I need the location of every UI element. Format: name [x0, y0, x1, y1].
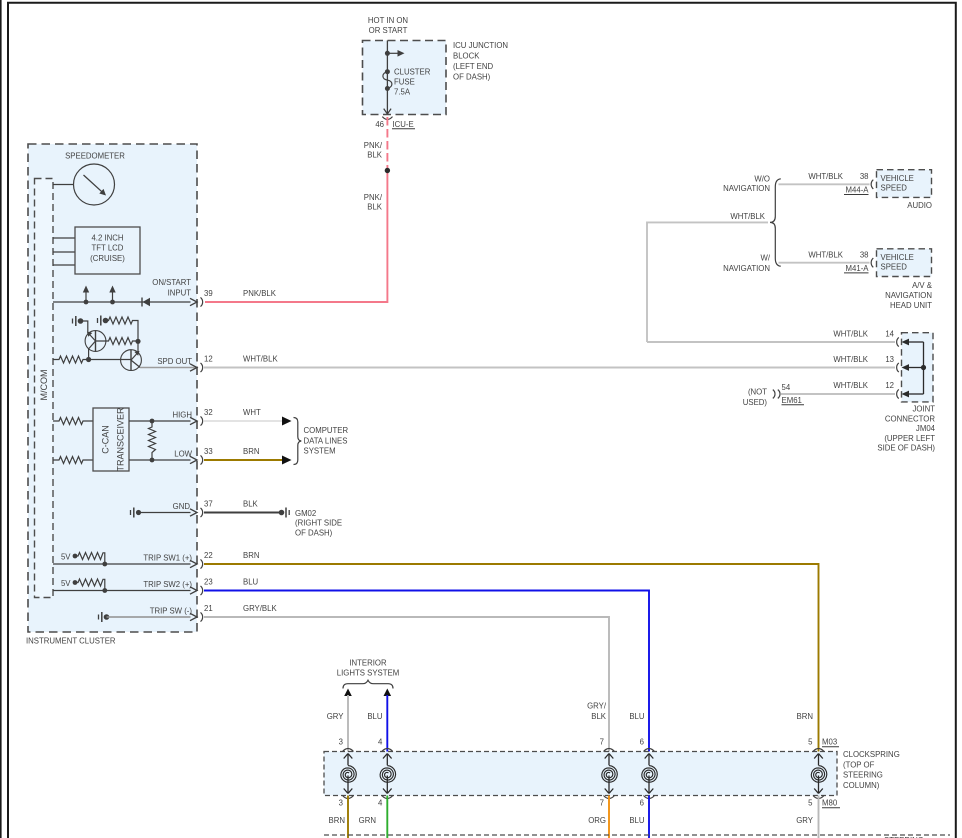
svg-text:VEHICLE: VEHICLE — [881, 253, 914, 262]
jm04 internal arrow 13 — [902, 364, 910, 371]
wire ICU feed vertical — [386, 41, 388, 114]
svg-text:USED): USED) — [743, 398, 768, 407]
vehicle speed box (audio) — [877, 170, 932, 198]
svg-text:BLU: BLU — [243, 578, 259, 587]
arrow up interior lights (GRY) — [344, 689, 352, 697]
resistor R1 (top) — [106, 317, 139, 341]
svg-text:37: 37 — [204, 500, 213, 509]
svg-text:COLUMN): COLUMN) — [843, 781, 880, 790]
svg-text:OF DASH): OF DASH) — [295, 529, 333, 538]
svg-text:LIGHTS SYSTEM: LIGHTS SYSTEM — [337, 668, 399, 677]
svg-text:21: 21 — [204, 604, 213, 613]
svg-text:GRY/BLK: GRY/BLK — [243, 604, 277, 613]
svg-text:NAVIGATION: NAVIGATION — [723, 184, 770, 193]
wire WHT/BLK spd out long — [204, 367, 895, 369]
svg-text:(RIGHT SIDE: (RIGHT SIDE — [295, 519, 342, 528]
pin 37 — [190, 509, 197, 516]
ground symbol (trip sw -) — [98, 615, 100, 620]
joint connector JM04 box — [902, 333, 934, 402]
svg-text:38: 38 — [860, 251, 869, 260]
svg-text:33: 33 — [204, 447, 213, 456]
svg-text:13: 13 — [885, 355, 894, 364]
svg-text:(TOP OF: (TOP OF — [843, 760, 875, 769]
svg-text:32: 32 — [204, 408, 213, 417]
svg-text:JOINT: JOINT — [912, 405, 935, 414]
wire trip sw1 row — [53, 563, 191, 565]
ground GM02 — [279, 510, 285, 516]
pin 14 connector — [897, 337, 899, 346]
wire WHT/BLK to audio VSS — [779, 183, 870, 185]
svg-text:INTERIOR: INTERIOR — [349, 658, 387, 667]
jm04 bus — [923, 342, 925, 394]
svg-text:ON/START: ON/START — [152, 278, 191, 287]
node jm04 junction — [921, 365, 926, 370]
svg-text:HIGH: HIGH — [173, 411, 193, 420]
svg-text:ICU JUNCTION: ICU JUNCTION — [453, 41, 508, 50]
node trip sw1 — [102, 562, 107, 567]
wire GRN below pin4 — [386, 796, 388, 838]
wire P1 to Q1 — [81, 321, 88, 334]
node branch dot — [385, 51, 390, 56]
wire BLU below pin6 — [648, 796, 650, 838]
svg-text:WHT/BLK: WHT/BLK — [730, 212, 765, 221]
arrow up interior lights (BLU) — [384, 689, 392, 697]
svg-text:54: 54 — [782, 383, 791, 392]
svg-text:ORG: ORG — [588, 816, 606, 825]
wire into pin 12 — [781, 393, 895, 395]
svg-text:12: 12 — [885, 381, 894, 390]
svg-text:BLOCK: BLOCK — [453, 52, 480, 61]
jm04 internal arrow 12 — [902, 391, 910, 398]
clockspring coil pin3 — [341, 749, 357, 799]
svg-text:LOW: LOW — [174, 450, 192, 459]
svg-text:A/V &: A/V & — [912, 281, 933, 290]
svg-text:SPEED: SPEED — [881, 183, 908, 192]
LCD display box — [75, 227, 140, 274]
svg-text:FUSE: FUSE — [394, 78, 415, 87]
svg-text:GRY: GRY — [327, 712, 345, 721]
wire high row — [129, 420, 191, 422]
svg-text:22: 22 — [204, 551, 213, 560]
wire PNK/BLK solid down and left to pin 39 — [205, 171, 387, 303]
wire GRY below pin5 — [818, 796, 820, 838]
svg-text:PNK/: PNK/ — [364, 193, 383, 202]
svg-text:M80: M80 — [822, 799, 838, 808]
svg-text:GRY/: GRY/ — [587, 702, 607, 711]
pin 32 — [190, 417, 197, 424]
svg-text:HOT IN ON: HOT IN ON — [368, 16, 408, 25]
svg-text:BRN: BRN — [243, 447, 259, 456]
clockspring box — [324, 752, 837, 796]
wire low row — [129, 459, 191, 461]
svg-text:4: 4 — [378, 799, 383, 808]
svg-text:SPD OUT: SPD OUT — [157, 357, 192, 366]
pin 23 — [190, 587, 197, 594]
svg-text:ICU-E: ICU-E — [393, 120, 414, 129]
wire GND row — [139, 512, 191, 514]
svg-text:6: 6 — [640, 799, 644, 808]
svg-text:(NOT: (NOT — [748, 388, 767, 397]
INSTRUMENT CLUSTER outer dashed box — [28, 144, 197, 632]
pullup resistor trip sw1 — [73, 554, 78, 559]
svg-text:INPUT: INPUT — [168, 289, 192, 298]
svg-text:OR START: OR START — [369, 26, 408, 35]
brace interior lights — [343, 680, 393, 688]
svg-text:BLU: BLU — [367, 712, 383, 721]
wire BRN low — [204, 459, 284, 461]
svg-text:23: 23 — [204, 578, 213, 587]
svg-text:WHT/BLK: WHT/BLK — [243, 355, 278, 364]
svg-text:TRIP SW1 (+): TRIP SW1 (+) — [143, 554, 192, 563]
svg-text:VEHICLE: VEHICLE — [881, 174, 914, 183]
stub wires to LCD — [53, 237, 75, 239]
wire to speedometer — [53, 184, 74, 186]
power symbol P1 — [72, 319, 74, 324]
svg-text:WHT: WHT — [243, 408, 261, 417]
speedometer gauge — [74, 164, 115, 205]
svg-text:NAVIGATION: NAVIGATION — [723, 264, 770, 273]
svg-text:38: 38 — [860, 172, 869, 181]
svg-text:M41-A: M41-A — [846, 264, 870, 273]
wire to Q2 base — [89, 359, 131, 361]
svg-text:CONNECTOR: CONNECTOR — [885, 414, 935, 423]
wire trip sw2 row — [53, 590, 191, 592]
wire WHT/BLK branch up from pin14 to split — [647, 222, 768, 342]
pin 39 — [190, 298, 197, 305]
transistor Q1 — [85, 331, 106, 352]
transistor Q2 — [121, 350, 142, 371]
wire GRY down to clockspring pin 3 — [347, 695, 349, 752]
svg-text:TRANSCEIVER: TRANSCEIVER — [116, 407, 126, 472]
wire junction down to Q2 emitter — [137, 341, 139, 353]
pin 12 connector — [897, 389, 899, 398]
ICU junction block (dashed box) — [363, 41, 447, 115]
svg-text:EM61: EM61 — [782, 396, 802, 405]
wire GRY/BLK trip sw minus to clockspring — [204, 617, 609, 752]
svg-text:PNK/: PNK/ — [364, 141, 383, 150]
wire BLK to GM02 — [204, 512, 282, 514]
node R1/R2 junction — [135, 339, 140, 344]
resistor R4 (CAN high) — [53, 418, 93, 425]
svg-text:GND: GND — [173, 502, 191, 511]
svg-text:BRN: BRN — [243, 551, 259, 560]
power symbol P2 — [97, 318, 99, 323]
wire BRN trip sw1 to clockspring — [204, 564, 819, 752]
svg-text:INSTRUMENT CLUSTER: INSTRUMENT CLUSTER — [26, 637, 116, 646]
svg-text:BLK: BLK — [367, 203, 383, 212]
svg-text:NAVIGATION: NAVIGATION — [885, 291, 932, 300]
svg-text:M44-A: M44-A — [846, 186, 870, 195]
svg-text:TRIP SW2 (+): TRIP SW2 (+) — [143, 580, 192, 589]
clockspring coil pin4 — [380, 749, 396, 799]
svg-text:SYSTEM: SYSTEM — [304, 447, 336, 456]
svg-text:5: 5 — [808, 738, 813, 747]
svg-text:46: 46 — [375, 120, 384, 129]
svg-text:3: 3 — [339, 738, 343, 747]
svg-text:BLK: BLK — [367, 151, 383, 160]
pin 33 — [190, 456, 197, 463]
pin 46 connector arc — [382, 117, 392, 120]
clockspring coil pin6 — [642, 749, 658, 799]
svg-text:BLU: BLU — [629, 816, 645, 825]
branch arrow up 2 — [110, 300, 115, 305]
svg-text:WHT/BLK: WHT/BLK — [808, 172, 843, 181]
svg-text:39: 39 — [204, 289, 213, 298]
resistor R3 (emitter bottom row) — [53, 356, 89, 363]
svg-text:SPEEDOMETER: SPEEDOMETER — [65, 152, 125, 161]
diode D1 — [141, 298, 143, 307]
svg-text:(CRUISE): (CRUISE) — [90, 254, 125, 263]
wire branch right with arrow — [387, 52, 399, 54]
svg-text:C-CAN: C-CAN — [101, 425, 111, 454]
svg-text:12: 12 — [204, 355, 213, 364]
svg-text:W/O: W/O — [754, 174, 770, 183]
svg-text:7: 7 — [600, 738, 604, 747]
svg-text:5V: 5V — [61, 579, 71, 588]
svg-text:CLUSTER: CLUSTER — [394, 68, 431, 77]
clockspring coil pin7 — [602, 749, 618, 799]
svg-text:WHT/BLK: WHT/BLK — [833, 355, 868, 364]
cluster fuse 7.5A — [385, 69, 390, 74]
resistor R6 (termination vertical) — [149, 421, 156, 460]
svg-text:GM02: GM02 — [295, 509, 316, 518]
svg-text:STEERING: STEERING — [843, 771, 883, 780]
connector EM61 arcs — [773, 390, 780, 399]
wire ON/START input row — [53, 301, 191, 303]
wire BRN below pin3 — [347, 796, 349, 838]
svg-text:M/COM: M/COM — [39, 370, 49, 401]
svg-text:OF DASH): OF DASH) — [453, 73, 491, 82]
C-CAN transceiver U1 — [93, 408, 129, 471]
vehicle speed box (nav) — [877, 249, 932, 277]
svg-text:WHT/BLK: WHT/BLK — [833, 330, 868, 339]
svg-text:7.5A: 7.5A — [394, 88, 411, 97]
pin 21 — [190, 613, 197, 620]
wire PNK/BLK dashed (fusible) — [386, 117, 388, 171]
page edge line — [0, 0, 2, 838]
wire WHT/BLK to nav VSS — [779, 262, 870, 264]
svg-text:WHT/BLK: WHT/BLK — [833, 381, 868, 390]
jm04 internal arrow 14 — [902, 339, 910, 346]
svg-text:SIDE OF DASH): SIDE OF DASH) — [877, 444, 935, 453]
svg-text:7: 7 — [600, 799, 604, 808]
svg-text:BRN: BRN — [329, 816, 345, 825]
svg-text:5: 5 — [808, 799, 813, 808]
svg-text:SPEED: SPEED — [881, 263, 908, 272]
branch arrow up 1 — [84, 300, 89, 305]
wire into pin 14 — [647, 341, 895, 343]
svg-text:4.2 INCH: 4.2 INCH — [91, 233, 123, 242]
wire trip sw minus row — [107, 616, 191, 618]
svg-text:M03: M03 — [822, 738, 837, 747]
pin 22 — [190, 560, 197, 567]
arrow to data lines (low) — [282, 456, 292, 465]
node high junction — [150, 419, 155, 424]
svg-text:5V: 5V — [61, 553, 71, 562]
brace navigation split — [770, 179, 781, 266]
svg-text:6: 6 — [640, 738, 644, 747]
svg-text:BLK: BLK — [243, 500, 259, 509]
node Q1/Q2 base junction — [86, 357, 91, 362]
svg-text:BRN: BRN — [797, 712, 813, 721]
ground symbol (cluster GND) — [130, 510, 132, 515]
arrow to data lines (high) — [282, 417, 292, 426]
arrow down at box bottom — [384, 109, 391, 114]
pin 13 connector — [897, 363, 899, 372]
brace computer data lines — [294, 418, 302, 465]
svg-text:W/: W/ — [760, 254, 770, 263]
resistor R5 (CAN low) — [53, 457, 93, 464]
steering wheel box top edge (cut off) — [324, 834, 950, 836]
svg-text:JM04: JM04 — [916, 424, 936, 433]
svg-text:PNK/BLK: PNK/BLK — [243, 289, 277, 298]
svg-text:HEAD UNIT: HEAD UNIT — [890, 301, 932, 310]
resistor R2 (base of Q1) — [96, 338, 139, 345]
svg-text:GRN: GRN — [359, 816, 376, 825]
svg-text:(LEFT END: (LEFT END — [453, 62, 494, 71]
pullup resistor trip sw2 — [73, 580, 78, 585]
wire BLU trip sw2 to clockspring — [204, 591, 649, 752]
svg-text:GRY: GRY — [796, 816, 814, 825]
svg-text:TFT LCD: TFT LCD — [92, 244, 124, 253]
svg-text:AUDIO: AUDIO — [907, 201, 932, 210]
wire ORG below pin7 — [608, 796, 610, 838]
wire WHT — [204, 420, 284, 422]
clockspring coil pin5 — [811, 749, 827, 799]
svg-text:BLK: BLK — [591, 712, 607, 721]
M/COM inner dashed box — [35, 179, 54, 598]
pin 12 — [190, 364, 197, 371]
svg-text:TRIP SW (-): TRIP SW (-) — [150, 607, 193, 616]
svg-text:3: 3 — [339, 799, 343, 808]
node trip sw2 — [102, 588, 107, 593]
svg-text:BLU: BLU — [629, 712, 645, 721]
svg-text:14: 14 — [885, 330, 894, 339]
node low junction — [150, 458, 155, 463]
splice node on PNK wire — [385, 168, 390, 173]
svg-text:COMPUTER: COMPUTER — [304, 426, 349, 435]
svg-text:(UPPER LEFT: (UPPER LEFT — [884, 434, 935, 443]
svg-text:CLOCKSPRING: CLOCKSPRING — [843, 750, 900, 759]
svg-text:DATA LINES: DATA LINES — [304, 437, 348, 446]
svg-text:WHT/BLK: WHT/BLK — [808, 251, 843, 260]
svg-text:4: 4 — [378, 738, 383, 747]
wire BLU down to clockspring pin 4 — [386, 695, 388, 752]
